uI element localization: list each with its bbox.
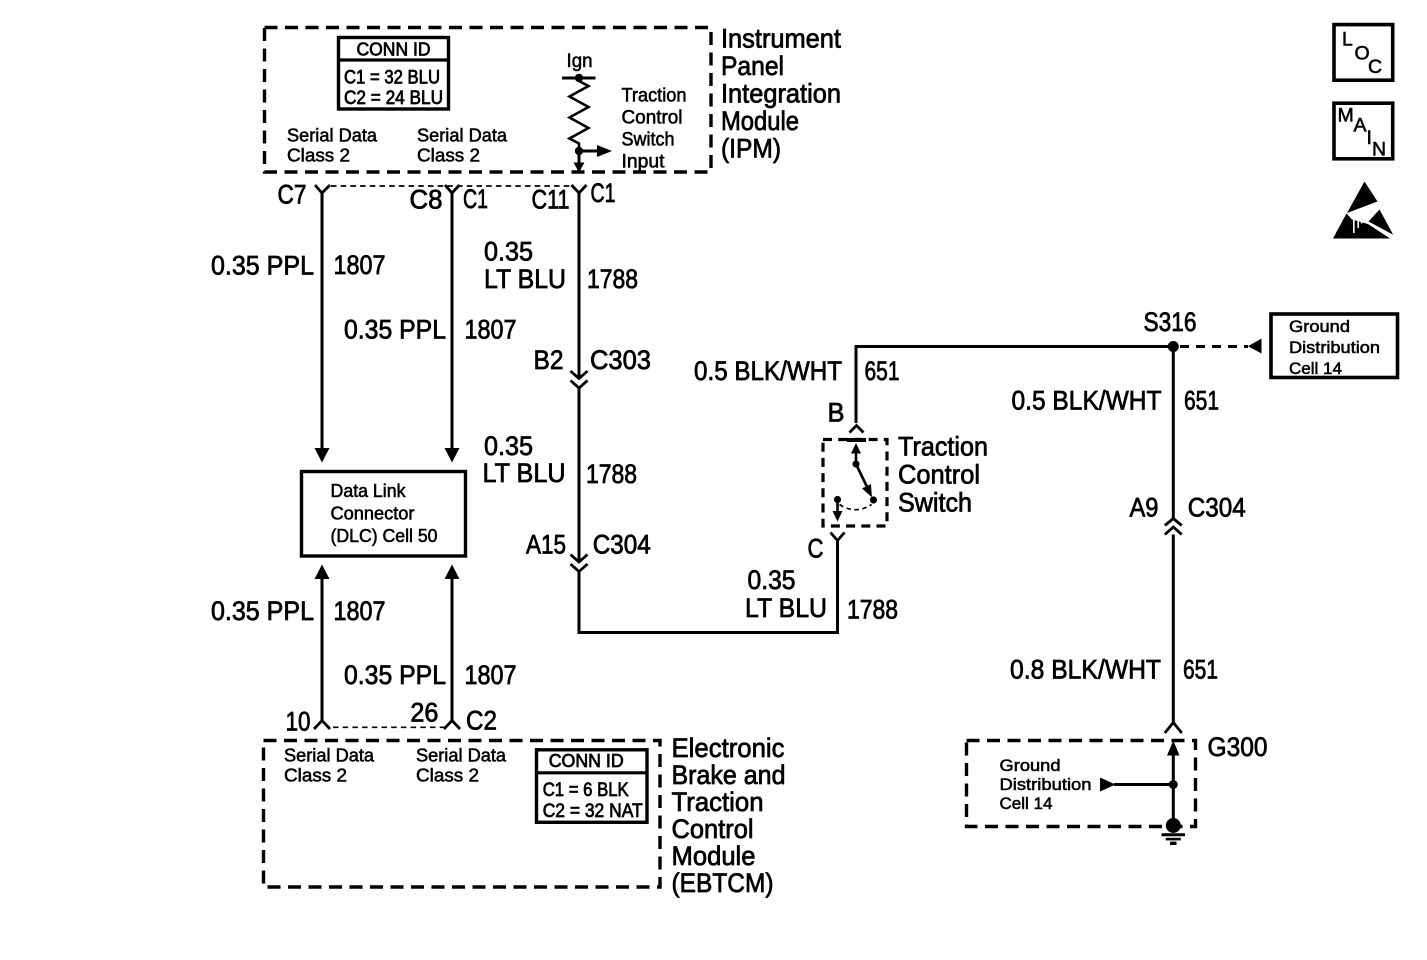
svg-text:C1: C1 xyxy=(591,178,616,208)
wire into G300 (arrow up at box edge) xyxy=(1167,741,1180,827)
switch blade (to contact) xyxy=(856,464,876,500)
wire 1788 from C1 to C303 xyxy=(578,193,581,377)
svg-text:L: L xyxy=(1342,29,1353,51)
svg-text:Class 2: Class 2 xyxy=(416,766,479,786)
label Ground Distribution Cell 14 (G300) xyxy=(1000,756,1092,813)
svg-text:651: 651 xyxy=(1183,655,1218,685)
svg-text:C303: C303 xyxy=(590,345,651,375)
connector half C8 xyxy=(445,185,460,193)
svg-text:A9: A9 xyxy=(1130,493,1159,523)
svg-text:1807: 1807 xyxy=(334,250,386,280)
svg-text:0.5 BLK/WHT: 0.5 BLK/WHT xyxy=(694,356,842,386)
signal arrow: traction control switch input (right) xyxy=(579,145,612,157)
connector row dashed line (EBTCM C2) xyxy=(333,726,444,728)
svg-text:C2 = 32 NAT: C2 = 32 NAT xyxy=(543,801,643,822)
svg-text:0.35 PPL: 0.35 PPL xyxy=(211,596,314,626)
wire 1807 DLC to EBTCM pin 10 (arrow up into DLC) xyxy=(315,565,330,721)
svg-text:C304: C304 xyxy=(593,530,651,560)
svg-text:Switch: Switch xyxy=(898,488,972,518)
svg-text:1788: 1788 xyxy=(587,264,638,294)
svg-text:Class 2: Class 2 xyxy=(284,766,347,786)
svg-text:Instrument: Instrument xyxy=(721,23,841,53)
label Traction Control Switch (component name) xyxy=(898,432,988,518)
svg-text:Panel: Panel xyxy=(721,51,784,81)
svg-text:CONN ID: CONN ID xyxy=(549,751,624,771)
off-page dashed wire to ground distribution xyxy=(1180,345,1248,348)
module box EBTCM (dashed) xyxy=(264,741,661,888)
svg-text:S316: S316 xyxy=(1144,307,1197,337)
svg-text:Class 2: Class 2 xyxy=(417,146,480,166)
wire 651 from S316 to C304 (A9) xyxy=(1172,347,1175,520)
label Traction Control Switch Input xyxy=(622,86,687,173)
svg-text:1807: 1807 xyxy=(465,660,517,690)
switch contact node C (left) xyxy=(834,496,841,503)
connector row dashed line (IPM C1/C2) xyxy=(331,185,572,187)
off-page arrow (to Ground Distribution Cell 14) xyxy=(1248,339,1262,354)
connector ID table (IPM) xyxy=(337,38,450,110)
switch arrow up to contact B xyxy=(851,443,861,464)
svg-text:26: 26 xyxy=(410,698,438,728)
wire 651 from C304 to G300 xyxy=(1172,535,1175,723)
wire 1807 from C7 to DLC (with arrow) xyxy=(315,193,330,463)
svg-text:10: 10 xyxy=(286,707,311,737)
svg-text:0.8 BLK/WHT: 0.8 BLK/WHT xyxy=(1010,655,1161,685)
svg-text:LT BLU: LT BLU xyxy=(484,264,566,294)
svg-text:Ground: Ground xyxy=(1000,756,1061,775)
svg-text:Brake and: Brake and xyxy=(672,760,786,790)
svg-text:Module: Module xyxy=(721,106,799,136)
svg-text:1788: 1788 xyxy=(586,459,637,489)
wire from internal arrow to ground stud xyxy=(1114,783,1173,786)
svg-text:Electronic: Electronic xyxy=(672,733,785,763)
inline connector C304 at A15 (double chevron) xyxy=(571,555,588,572)
svg-text:1807: 1807 xyxy=(465,315,517,345)
svg-text:Control: Control xyxy=(898,460,980,490)
connector half pin 26 (EBTCM) xyxy=(444,721,460,730)
svg-text:Cell 14: Cell 14 xyxy=(1000,794,1053,813)
svg-text:(EBTCM): (EBTCM) xyxy=(672,868,774,898)
svg-text:M: M xyxy=(1338,105,1354,127)
svg-text:Control: Control xyxy=(672,814,754,844)
svg-text:Traction: Traction xyxy=(622,86,687,107)
svg-text:0.35 PPL: 0.35 PPL xyxy=(344,660,446,690)
svg-text:Distribution: Distribution xyxy=(1289,338,1380,357)
wire 1788 from C304 to switch pin C xyxy=(579,541,838,633)
inline connector C304 at A9 (double chevron up) xyxy=(1165,519,1182,535)
svg-text:Switch: Switch xyxy=(622,130,675,151)
Ign feed rail and node xyxy=(562,74,596,82)
svg-text:N: N xyxy=(1372,139,1386,161)
svg-text:0.35: 0.35 xyxy=(748,565,796,595)
svg-text:C1 = 32 BLU: C1 = 32 BLU xyxy=(344,68,440,89)
connector ID table (EBTCM) xyxy=(535,750,648,823)
svg-text:0.5 BLK/WHT: 0.5 BLK/WHT xyxy=(1012,386,1162,416)
net label Serial Data Class 2 (pin C7) xyxy=(287,126,378,166)
wire: resistor output down to pin C1 xyxy=(574,151,585,173)
svg-text:G300: G300 xyxy=(1208,732,1268,762)
ground distribution box G300 (dashed) xyxy=(967,741,1196,827)
wire 651 from switch pin B to S316 xyxy=(856,347,1171,424)
switch travel dashed arc xyxy=(840,505,872,510)
switch contact node (right) xyxy=(870,496,877,503)
svg-text:(IPM): (IPM) xyxy=(721,133,781,163)
svg-text:CONN ID: CONN ID xyxy=(357,40,431,60)
svg-text:Ign: Ign xyxy=(567,51,593,72)
svg-text:0.35 PPL: 0.35 PPL xyxy=(344,315,446,345)
svg-text:Cell 14: Cell 14 xyxy=(1289,359,1342,378)
svg-text:A: A xyxy=(1354,114,1367,136)
svg-text:Serial Data: Serial Data xyxy=(417,126,508,146)
module label IPM xyxy=(721,23,841,163)
svg-text:Module: Module xyxy=(672,841,756,871)
svg-text:C2: C2 xyxy=(466,706,497,736)
svg-text:Integration: Integration xyxy=(721,78,841,108)
svg-text:Input: Input xyxy=(622,152,666,173)
wire 1807 from C8 to DLC (with arrow) xyxy=(445,193,460,463)
reference box LOC xyxy=(1334,25,1393,81)
connector half C (switch) xyxy=(831,533,845,541)
svg-text:Connector: Connector xyxy=(331,504,415,524)
svg-text:Serial Data: Serial Data xyxy=(284,746,375,766)
svg-text:C7: C7 xyxy=(278,180,307,210)
svg-text:Traction: Traction xyxy=(672,787,764,817)
svg-text:C8: C8 xyxy=(410,185,443,215)
switch arrow down to pin C xyxy=(833,500,843,522)
net label Serial Data Class 2 (pin C8) xyxy=(417,126,508,166)
svg-text:C11: C11 xyxy=(532,185,570,215)
connector half at G300 (chevron up) xyxy=(1165,723,1182,734)
traction control switch box (dashed) xyxy=(823,440,887,527)
reference box Ground Distribution Cell 14 xyxy=(1271,314,1398,378)
connector half pin 10 (EBTCM) xyxy=(314,721,330,730)
svg-text:C: C xyxy=(808,534,824,564)
svg-text:B2: B2 xyxy=(534,345,564,375)
svg-text:Ground: Ground xyxy=(1289,317,1350,336)
module box IPM (dashed) xyxy=(265,28,712,173)
svg-text:Data Link: Data Link xyxy=(331,481,407,501)
resistor (pull-up to Ign) xyxy=(570,78,589,148)
svg-text:B: B xyxy=(828,398,845,428)
junction node on ground stud xyxy=(1169,780,1178,789)
connector half B (switch) xyxy=(850,426,864,433)
svg-text:LT BLU: LT BLU xyxy=(745,593,827,623)
svg-text:C1 = 6 BLK: C1 = 6 BLK xyxy=(543,780,629,801)
svg-text:C304: C304 xyxy=(1188,493,1246,523)
svg-text:0.35 PPL: 0.35 PPL xyxy=(211,251,314,281)
DLC box xyxy=(302,472,466,557)
net label Serial Data Class 2 (pin 10) xyxy=(284,746,375,786)
ESD sensitive device symbol xyxy=(1333,182,1393,239)
switch fixed contact bar (B) xyxy=(847,438,866,442)
svg-text:Class 2: Class 2 xyxy=(287,146,350,166)
net label Serial Data Class 2 (pin 26) xyxy=(416,746,507,786)
switch pivot node xyxy=(852,460,859,467)
svg-text:Traction: Traction xyxy=(898,432,988,462)
svg-text:(DLC) Cell 50: (DLC) Cell 50 xyxy=(331,526,438,546)
inline connector C303 (double chevron) xyxy=(571,371,588,388)
svg-text:A15: A15 xyxy=(526,530,566,560)
module label EBTCM xyxy=(672,733,786,898)
svg-text:651: 651 xyxy=(1184,386,1219,416)
splice S316 node xyxy=(1168,341,1179,352)
connector half C7 xyxy=(315,185,330,193)
svg-text:0.35: 0.35 xyxy=(484,237,533,267)
svg-text:Serial Data: Serial Data xyxy=(287,126,378,146)
svg-text:Distribution: Distribution xyxy=(1000,775,1092,794)
connector half C11 xyxy=(572,185,587,193)
svg-text:1807: 1807 xyxy=(334,596,386,626)
internal arrow (ground distribution feed) xyxy=(1100,778,1116,792)
svg-text:C: C xyxy=(1368,56,1382,78)
wire 1788 from C303 to C304 xyxy=(578,388,581,561)
svg-text:C1: C1 xyxy=(463,184,488,214)
reference box MAIN xyxy=(1334,103,1393,160)
svg-text:1788: 1788 xyxy=(847,595,898,625)
wire 1807 DLC to EBTCM pin 26 (arrow up into DLC) xyxy=(445,565,460,721)
svg-text:0.35: 0.35 xyxy=(484,431,533,461)
svg-text:Serial Data: Serial Data xyxy=(416,746,507,766)
ground symbol G300 xyxy=(1162,818,1186,843)
svg-text:Control: Control xyxy=(622,108,683,129)
svg-text:651: 651 xyxy=(865,356,900,386)
svg-text:C2 = 24 BLU: C2 = 24 BLU xyxy=(344,88,443,109)
node: resistor output junction xyxy=(575,147,583,155)
svg-text:LT BLU: LT BLU xyxy=(483,458,566,488)
